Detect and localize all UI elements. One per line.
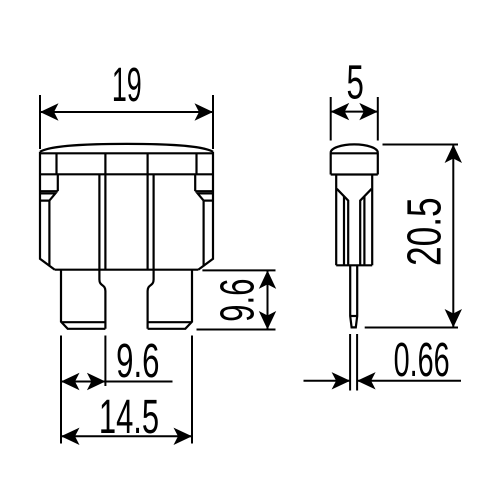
svg-text:19: 19 <box>112 59 142 112</box>
svg-text:9.6: 9.6 <box>116 333 159 388</box>
svg-text:14.5: 14.5 <box>99 389 159 444</box>
svg-text:0.66: 0.66 <box>394 333 450 386</box>
svg-text:5: 5 <box>347 55 364 110</box>
svg-text:9.6: 9.6 <box>210 279 265 322</box>
svg-text:20.5: 20.5 <box>397 197 451 266</box>
